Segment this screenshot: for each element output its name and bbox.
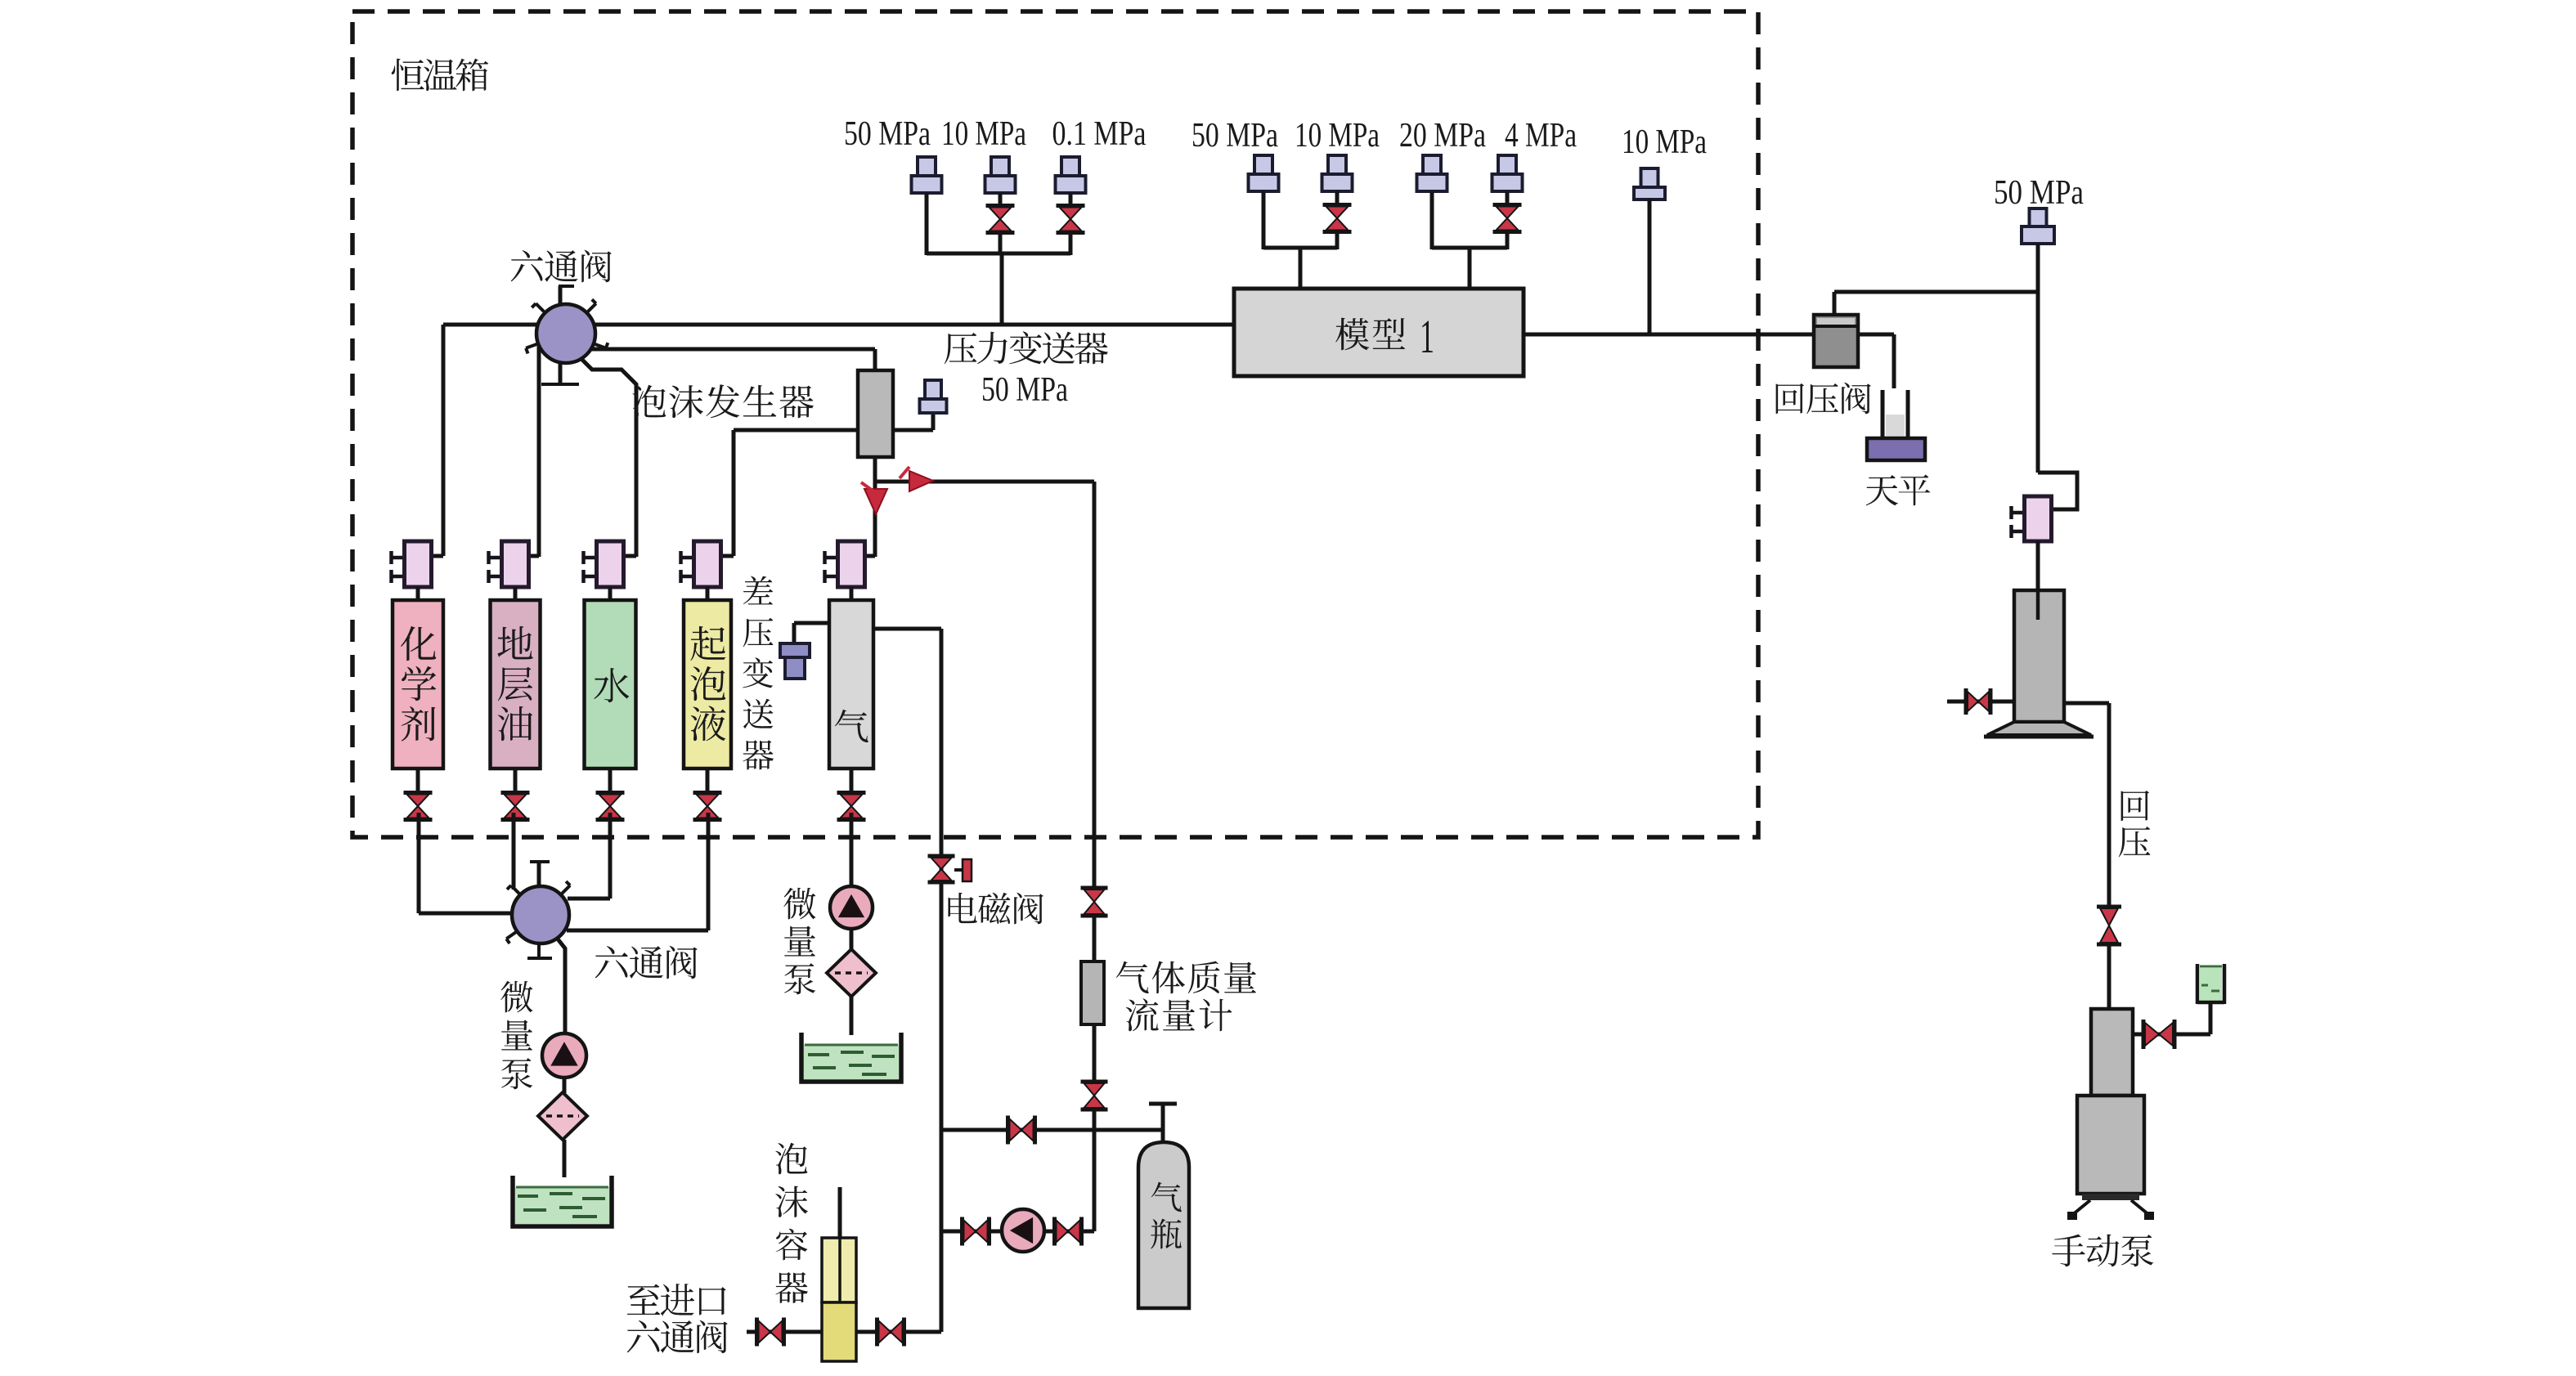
svg-text:50 MPa: 50 MPa [1192, 117, 1278, 155]
svg-text:20 MPa: 20 MPa [1399, 117, 1486, 155]
svg-text:10 MPa: 10 MPa [941, 115, 1026, 153]
svg-text:50 MPa: 50 MPa [1994, 174, 2084, 212]
svg-text:4 MPa: 4 MPa [1505, 117, 1577, 155]
svg-text:50 MPa: 50 MPa [981, 371, 1068, 409]
svg-text:10 MPa: 10 MPa [1622, 123, 1707, 161]
svg-text:1: 1 [1420, 310, 1434, 363]
svg-text:0.1 MPa: 0.1 MPa [1052, 115, 1147, 153]
svg-text:50 MPa: 50 MPa [844, 115, 931, 153]
svg-text:10 MPa: 10 MPa [1295, 117, 1380, 155]
